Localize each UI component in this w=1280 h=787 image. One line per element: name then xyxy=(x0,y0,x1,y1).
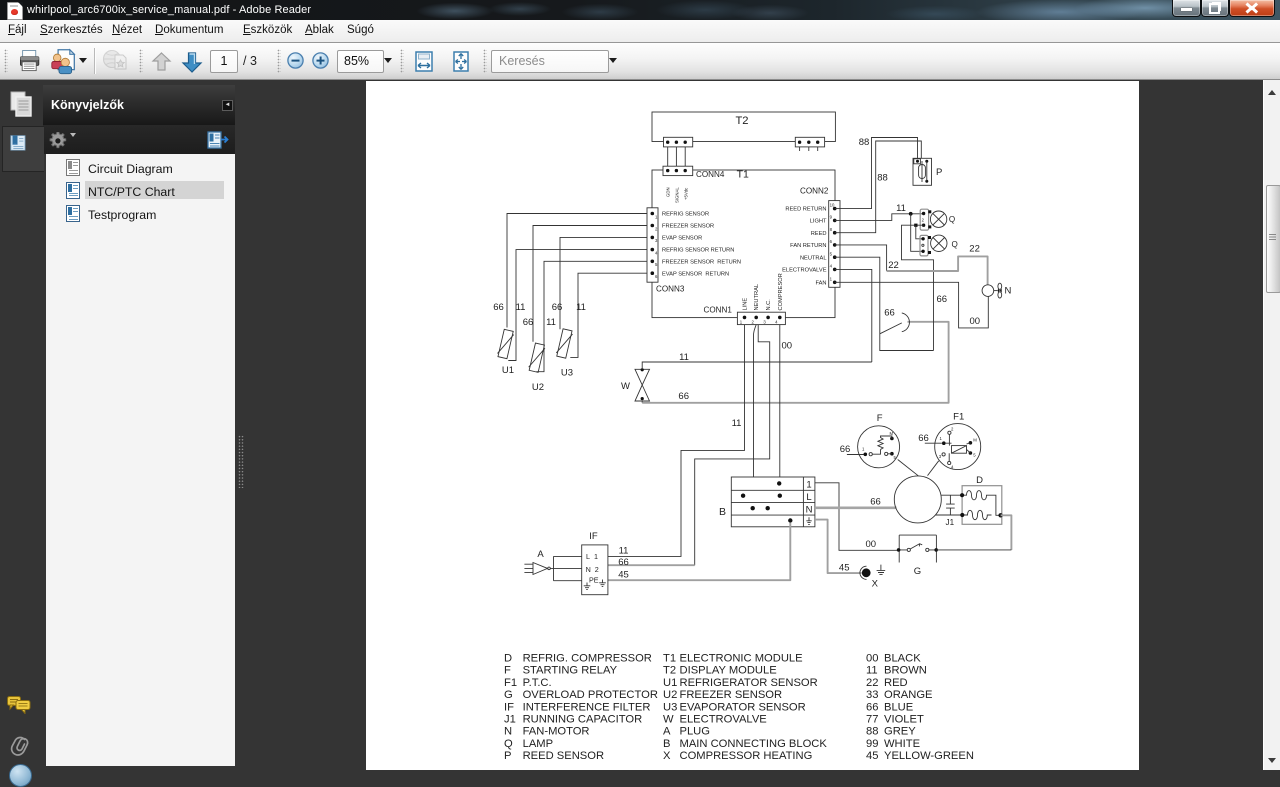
svg-text:ELECTROVALVE: ELECTROVALVE xyxy=(782,268,827,274)
running capacitor J1 xyxy=(946,495,955,527)
menu bar xyxy=(0,20,1280,43)
wire D to G xyxy=(1001,515,1012,550)
CONN3 pin name labels xyxy=(662,212,741,278)
fan motor N xyxy=(982,283,1011,298)
svg-text:66: 66 xyxy=(937,294,948,305)
svg-text:5: 5 xyxy=(973,453,976,458)
svg-text:CONN1: CONN1 xyxy=(704,306,733,315)
svg-text:G: G xyxy=(504,689,513,701)
connector CONN4 xyxy=(663,166,725,179)
svg-text:Q: Q xyxy=(504,738,513,750)
svg-text:J1: J1 xyxy=(504,714,516,726)
link F1 to motor xyxy=(928,461,939,476)
svg-text:66: 66 xyxy=(493,302,504,313)
svg-text:CONN4: CONN4 xyxy=(696,170,725,179)
navigation panel header xyxy=(43,85,235,125)
interference filter IF xyxy=(582,531,608,595)
svg-text:00: 00 xyxy=(866,653,878,665)
svg-text:LAMP: LAMP xyxy=(523,738,553,750)
wire 00 CONN1 compressor to block B xyxy=(779,325,781,484)
wire 00 CONN2 fan to fan motor N bottom xyxy=(835,282,989,328)
lamp1 connector xyxy=(920,209,928,230)
svg-text:STARTING RELAY: STARTING RELAY xyxy=(523,665,618,677)
legend column 2 xyxy=(663,653,827,763)
svg-text:45: 45 xyxy=(839,562,850,573)
svg-text:T1: T1 xyxy=(663,653,676,665)
svg-text:22: 22 xyxy=(969,243,980,254)
wire CONN1 neutral to block B xyxy=(754,325,757,509)
link F to motor xyxy=(898,460,919,476)
display module T2 xyxy=(652,112,835,142)
svg-text:2: 2 xyxy=(922,218,925,223)
svg-text:G: G xyxy=(914,566,921,577)
sidebar icons xyxy=(10,91,32,117)
svg-text:66: 66 xyxy=(884,308,895,319)
svg-text:45: 45 xyxy=(866,750,878,762)
svg-text:RUNNING CAPACITOR: RUNNING CAPACITOR xyxy=(523,714,643,726)
svg-text:U1: U1 xyxy=(663,677,677,689)
svg-text:11: 11 xyxy=(896,203,906,214)
svg-text:66: 66 xyxy=(870,497,881,508)
CONN1 pin labels LINE / NEUTRAL / N.C. / COMPRESSOR xyxy=(743,273,784,310)
svg-text:T2: T2 xyxy=(663,665,676,677)
svg-text:LIGHT: LIGHT xyxy=(810,219,827,225)
svg-text:A: A xyxy=(663,726,671,738)
PTC F1 xyxy=(935,411,981,469)
wire CONN3 pin3 to U3 top xyxy=(560,237,647,329)
wire CONN3 pin4 to U1 bottom xyxy=(508,250,647,361)
svg-text:M: M xyxy=(973,438,977,443)
wires plug A to IF xyxy=(550,556,581,580)
svg-text:W: W xyxy=(621,381,630,392)
svg-text:EVAP SENSOR RETURN: EVAP SENSOR RETURN xyxy=(662,271,729,277)
door switch lever xyxy=(880,323,902,334)
svg-text:1: 1 xyxy=(806,480,811,491)
svg-text:N.C.: N.C. xyxy=(766,299,772,311)
wire 88 CONN2 reed to P xyxy=(835,141,922,233)
connector CONN1 xyxy=(704,306,786,325)
junction dots motor-D xyxy=(960,493,964,497)
wire node to lamp2 lower pin xyxy=(911,214,923,252)
svg-text:22: 22 xyxy=(888,260,899,271)
wire 66 stub to F xyxy=(847,454,864,456)
overload protector G xyxy=(897,535,938,577)
svg-text:ORANGE: ORANGE xyxy=(884,689,933,701)
svg-text:FREEZER SENSOR RETURN: FREEZER SENSOR RETURN xyxy=(662,259,741,265)
svg-text:BLUE: BLUE xyxy=(884,701,913,713)
svg-text:SIGNAL: SIGNAL xyxy=(675,187,680,203)
svg-text:1: 1 xyxy=(940,436,943,441)
svg-text:L 1: L 1 xyxy=(586,552,598,561)
node on 11 wire xyxy=(909,212,913,216)
svg-text:BLACK: BLACK xyxy=(884,653,921,665)
svg-text:ELECTRONIC MODULE: ELECTRONIC MODULE xyxy=(680,653,803,665)
svg-text:GDN: GDN xyxy=(666,187,671,197)
svg-text:11: 11 xyxy=(619,545,629,556)
svg-text:REED SENSOR: REED SENSOR xyxy=(523,750,604,762)
starting relay F xyxy=(858,413,900,468)
svg-text:X: X xyxy=(872,578,879,589)
wire node to lamp2 upper pin xyxy=(916,225,923,239)
svg-text:P: P xyxy=(504,750,511,762)
svg-text:10: 10 xyxy=(830,203,835,208)
svg-text:F: F xyxy=(877,413,883,424)
svg-text:REED: REED xyxy=(811,231,827,237)
lamp Q2 xyxy=(928,235,958,254)
plug A xyxy=(524,549,550,574)
electrovalve W xyxy=(621,368,649,401)
svg-text:EVAPORATOR SENSOR: EVAPORATOR SENSOR xyxy=(680,701,806,713)
svg-text:88: 88 xyxy=(859,137,870,148)
svg-text:REED RETURN: REED RETURN xyxy=(785,207,826,213)
square node xyxy=(914,224,917,227)
wire 88 CONN2 reed-return to P xyxy=(835,138,918,209)
svg-text:A: A xyxy=(537,549,544,560)
svg-text:W: W xyxy=(663,714,674,726)
CONN4 pin labels GDN / SIGNAL / +5Vdc xyxy=(666,187,689,203)
svg-text:CONN3: CONN3 xyxy=(656,285,685,294)
svg-text:U1: U1 xyxy=(502,365,514,376)
svg-text:EVAP SENSOR: EVAP SENSOR xyxy=(662,236,702,242)
svg-text:COMPRESOR: COMPRESOR xyxy=(778,273,784,310)
T2 right connector xyxy=(795,137,824,151)
wires T2 to CONN4 xyxy=(668,147,686,166)
svg-text:88: 88 xyxy=(866,726,878,738)
bookmarks list xyxy=(46,154,235,766)
svg-text:N: N xyxy=(1005,285,1012,296)
legend column 1 xyxy=(504,653,658,763)
compressor heater terminal X xyxy=(860,565,885,590)
svg-text:D: D xyxy=(976,475,983,486)
svg-text:FREEZER SENSOR: FREEZER SENSOR xyxy=(662,224,714,230)
sensor U1 xyxy=(497,329,515,376)
svg-text:22: 22 xyxy=(866,677,878,689)
wire lamp1 pin2 branch xyxy=(902,225,934,350)
svg-text:OVERLOAD PROTECTOR: OVERLOAD PROTECTOR xyxy=(523,689,658,701)
svg-text:U3: U3 xyxy=(561,368,573,379)
gear/options row xyxy=(43,125,235,154)
svg-text:INTERFERENCE FILTER: INTERFERENCE FILTER xyxy=(523,701,651,713)
svg-text:F: F xyxy=(504,665,511,677)
svg-text:VIOLET: VIOLET xyxy=(884,714,924,726)
svg-text:REFRIGERATOR SENSOR: REFRIGERATOR SENSOR xyxy=(680,677,818,689)
svg-text:66: 66 xyxy=(523,317,534,328)
svg-text:1: 1 xyxy=(862,447,865,452)
svg-text:4: 4 xyxy=(951,465,954,470)
svg-text:FAN: FAN xyxy=(815,280,826,286)
scrollbar xyxy=(1263,80,1280,770)
svg-text:66: 66 xyxy=(866,701,878,713)
svg-text:RED: RED xyxy=(884,677,908,689)
svg-text:FAN RETURN: FAN RETURN xyxy=(790,243,826,249)
reed sensor P xyxy=(913,158,942,185)
svg-text:U2: U2 xyxy=(663,689,677,701)
svg-text:Q: Q xyxy=(952,240,958,249)
svg-text:WHITE: WHITE xyxy=(884,738,920,750)
svg-text:DISPLAY MODULE: DISPLAY MODULE xyxy=(680,665,777,677)
svg-text:N: N xyxy=(806,505,813,516)
svg-text:ELECTROVALVE: ELECTROVALVE xyxy=(680,714,767,726)
svg-text:MAIN CONNECTING BLOCK: MAIN CONNECTING BLOCK xyxy=(680,738,828,750)
svg-text:REFRIG SENSOR RETURN: REFRIG SENSOR RETURN xyxy=(662,248,734,254)
svg-text:LINE: LINE xyxy=(743,298,749,311)
legend column 3 xyxy=(866,653,974,763)
svg-text:66: 66 xyxy=(918,433,929,444)
svg-text:11: 11 xyxy=(576,302,586,313)
svg-text:88: 88 xyxy=(877,172,888,183)
wire 22 CONN2 fan-return to fan motor N top xyxy=(835,245,887,271)
svg-text:FAN-MOTOR: FAN-MOTOR xyxy=(523,726,590,738)
sensor U2 xyxy=(528,343,546,393)
svg-text:Q: Q xyxy=(949,215,955,224)
svg-text:N: N xyxy=(504,726,512,738)
svg-text:YELLOW-GREEN: YELLOW-GREEN xyxy=(884,750,974,762)
wire CONN3 pin2 to U2 top xyxy=(533,226,647,342)
svg-text:T1: T1 xyxy=(737,168,749,180)
svg-text:66: 66 xyxy=(552,302,563,313)
svg-text:FREEZER SENSOR: FREEZER SENSOR xyxy=(680,689,783,701)
svg-text:IF: IF xyxy=(504,701,514,713)
electronic module T1 xyxy=(652,168,835,317)
wire 66 CONN1 to IF xyxy=(695,325,770,566)
wire CONN3 pin5 to U2 bottom xyxy=(536,261,647,371)
Adobe Reader window title bar xyxy=(0,0,1280,20)
svg-text:66: 66 xyxy=(618,557,629,568)
sensor U3 xyxy=(556,329,574,379)
wire CONN3 pin1 to U1 top xyxy=(507,214,647,328)
svg-text:P.T.C.: P.T.C. xyxy=(523,677,552,689)
wire CONN3 pin6 to U3 bottom xyxy=(570,273,647,357)
wire CONN2 electrovalve down to W line xyxy=(835,269,872,362)
svg-text:F1: F1 xyxy=(504,677,517,689)
svg-text:11: 11 xyxy=(679,352,689,363)
svg-text:F1: F1 xyxy=(953,411,964,422)
wires motor to D and J1 xyxy=(935,495,962,515)
T2 left connector xyxy=(664,137,693,147)
svg-text:2: 2 xyxy=(951,427,954,432)
wire 11 CONN2 light to lamps xyxy=(835,214,924,221)
svg-text:11: 11 xyxy=(516,302,526,313)
svg-text:45: 45 xyxy=(618,570,629,581)
door switch contact arc xyxy=(902,313,910,332)
svg-text:U3: U3 xyxy=(663,701,677,713)
compressor motor xyxy=(894,476,941,523)
white PDF page xyxy=(366,81,1139,770)
toolbar xyxy=(0,43,1280,80)
wire 66 block B N row to motor xyxy=(815,506,897,509)
svg-text:IF: IF xyxy=(589,531,598,542)
svg-text:B: B xyxy=(719,506,726,518)
svg-text:B: B xyxy=(663,738,670,750)
svg-text:U2: U2 xyxy=(532,382,544,393)
refrig compressor heater D xyxy=(962,475,1002,524)
svg-text:11: 11 xyxy=(866,665,878,677)
wire 45 block B row4 to IF PE xyxy=(608,523,790,581)
connector CONN2 xyxy=(800,187,840,288)
svg-text:REFRIG. COMPRESSOR: REFRIG. COMPRESSOR xyxy=(523,653,652,665)
svg-text:33: 33 xyxy=(866,689,878,701)
svg-text:PE: PE xyxy=(589,576,599,585)
wire 66 stub to F1 xyxy=(925,442,942,444)
wire 11 CONN1 line to IF xyxy=(608,325,745,557)
svg-text:77: 77 xyxy=(866,714,878,726)
svg-text:66: 66 xyxy=(678,391,689,402)
wire colour labels at sensors xyxy=(493,302,586,328)
wire 11 from W top to electrovalve pin xyxy=(642,362,872,369)
svg-text:66: 66 xyxy=(840,444,851,455)
svg-text:P: P xyxy=(936,167,942,178)
wire 00 block B row1 to overload G xyxy=(815,483,899,551)
wire CONN2 neutral down to switch xyxy=(835,257,934,350)
lamp Q1 xyxy=(928,210,955,228)
main connecting block B xyxy=(719,477,815,527)
svg-text:GREY: GREY xyxy=(884,726,916,738)
splitter grip xyxy=(238,435,244,488)
svg-text:T2: T2 xyxy=(735,115,748,127)
CONN2 pin name labels xyxy=(782,207,827,287)
svg-text:L: L xyxy=(806,492,811,503)
lamp2 connector xyxy=(920,235,928,256)
svg-text:X: X xyxy=(663,750,671,762)
svg-text:COMPRESSOR HEATING: COMPRESSOR HEATING xyxy=(680,750,813,762)
svg-text:REFRIG SENSOR: REFRIG SENSOR xyxy=(662,212,709,218)
svg-text:99: 99 xyxy=(866,738,878,750)
svg-text:D: D xyxy=(504,653,512,665)
svg-text:NEUTRAL: NEUTRAL xyxy=(754,284,760,311)
svg-text:BROWN: BROWN xyxy=(884,665,927,677)
svg-text:CONN2: CONN2 xyxy=(800,187,829,196)
svg-text:00: 00 xyxy=(970,316,981,327)
svg-text:11: 11 xyxy=(546,317,556,328)
svg-text:N 2: N 2 xyxy=(586,565,599,574)
svg-text:00: 00 xyxy=(866,539,877,550)
wire 66 from W bottom to door switch xyxy=(641,401,643,403)
wire 45 block B earth to X xyxy=(815,520,862,574)
svg-text:M: M xyxy=(890,431,894,436)
svg-text:+5Vdc: +5Vdc xyxy=(684,187,689,200)
svg-text:PLUG: PLUG xyxy=(680,726,710,738)
connector CONN3 xyxy=(647,208,685,294)
svg-text:3: 3 xyxy=(939,454,942,459)
svg-text:11: 11 xyxy=(732,418,742,429)
svg-text:J1: J1 xyxy=(946,518,955,527)
svg-text:NEUTRAL: NEUTRAL xyxy=(800,255,827,261)
svg-text:00: 00 xyxy=(782,340,793,351)
